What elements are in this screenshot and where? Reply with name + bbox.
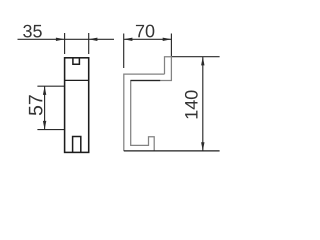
dimension line 57 <box>44 86 46 129</box>
dimension text 70 <box>136 25 154 38</box>
dimension text 140 (rotated) <box>185 90 198 118</box>
dimension text 35 <box>23 25 42 38</box>
dimension text 57 (rotated) <box>29 95 43 115</box>
extension line left of 35 <box>64 33 66 54</box>
arrow 70 right (pointing right) <box>163 38 172 41</box>
dimension line 70 <box>124 38 172 40</box>
arrow 140 top (pointing up) <box>201 57 204 66</box>
arrow 57 bottom (pointing down) <box>43 121 46 130</box>
arrow 70 left (pointing left) <box>124 38 133 41</box>
dimension line 140 <box>202 57 204 151</box>
side view bottom edge / extension line bottom of 140 <box>124 150 220 152</box>
arrow 35 left (tip at left ext, pointing right) <box>56 38 65 41</box>
front view bottom slot <box>73 137 81 153</box>
side view dark inner edge segment <box>131 80 161 82</box>
arrow 57 top (pointing up) <box>43 86 46 95</box>
extension line bottom of 57 <box>37 129 64 131</box>
extension line right of 35 <box>88 33 90 54</box>
side view profile (gray outline) <box>124 57 172 151</box>
arrow 35 right (tip at right ext, pointing left) <box>89 38 98 41</box>
extension line top of 57 <box>37 85 64 87</box>
extension line right of 70 <box>170 34 172 57</box>
front view top notch <box>73 58 80 64</box>
dimension line 35 with leader <box>18 38 115 40</box>
arrow 140 bottom (pointing down) <box>201 142 204 151</box>
front view outline (left view rectangle) <box>65 58 89 153</box>
extension line top of 140 <box>171 56 219 58</box>
front view internal edge line <box>65 79 89 81</box>
extension line left of 70 <box>123 34 125 69</box>
